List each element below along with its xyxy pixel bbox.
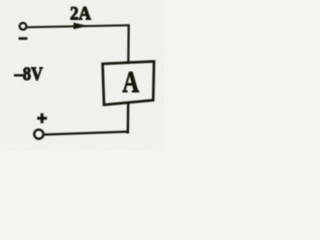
wire: top horizontal from negative terminal to corner bbox=[27, 25, 130, 27]
element A: meter box bbox=[103, 61, 154, 104]
polarity label + (above bottom terminal) bbox=[37, 113, 47, 123]
terminal: negative (top-left open circle) bbox=[20, 23, 27, 30]
current arrow 2A (arrowhead pointing right) bbox=[74, 23, 89, 30]
svg-text:–8V: –8V bbox=[14, 64, 44, 85]
polarity label - (under top terminal) bbox=[19, 37, 28, 40]
svg-text:A: A bbox=[123, 64, 140, 99]
wire: right vertical from corner down to box A bbox=[127, 24, 130, 64]
svg-text:2A: 2A bbox=[70, 4, 91, 25]
wire: bottom horizontal to positive terminal bbox=[44, 132, 129, 135]
terminal: positive (bottom-left open circle) bbox=[34, 130, 43, 139]
wire: bottom vertical from box A down bbox=[127, 104, 130, 134]
